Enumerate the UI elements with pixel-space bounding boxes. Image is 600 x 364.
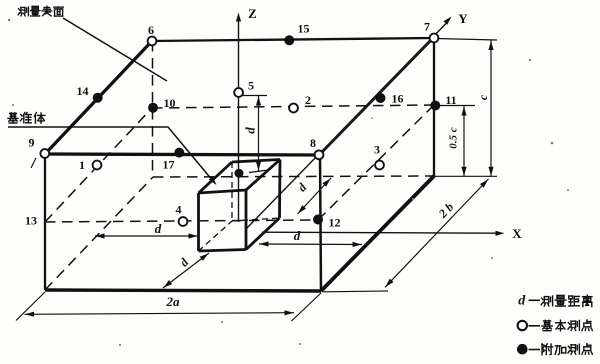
node point 2 (basic, open circle): [289, 104, 298, 113]
svg-text:1: 1: [79, 158, 85, 172]
wire edge 9'-8' (bottom-front): [45, 290, 321, 291]
dim d-vert top arrowhead: [256, 97, 261, 106]
speck: [60, 8, 62, 10]
legend d dash: [529, 299, 541, 301]
dim c / 0.5c bottom extension: [434, 175, 497, 177]
wire edge 7-7' (back-right vertical): [433, 38, 435, 176]
wire edge 9'-6' hidden (dashed bottom-left slant): [45, 177, 153, 290]
wire mid-plane right slant (through 3): [318, 105, 434, 220]
svg-text:d: d: [155, 221, 162, 236]
legend text 测量距离 (measurement distance): [541, 296, 552, 306]
wire edge 9-8 (top-front): [45, 154, 320, 155]
dim d-vert tick below point 5: [242, 95, 267, 97]
node point 8 (basic, open circle): [315, 150, 324, 159]
dim 0.5c line: [463, 106, 465, 176]
wire edge 9-6 (top-left slant): [45, 41, 152, 154]
box edge A-B (top-left): [199, 162, 233, 193]
wire mid-plane front line (through 13,4,12): [45, 220, 318, 222]
speck: [567, 189, 569, 191]
box edge A'-D' (front-bottom): [199, 250, 247, 252]
tick below label 9: [31, 158, 36, 168]
svg-text:15: 15: [298, 22, 310, 36]
svg-text:8: 8: [310, 136, 316, 150]
speck: [551, 142, 554, 145]
speck: [491, 257, 493, 259]
leader from label 基准体: [8, 127, 213, 181]
wire edge 8'-7' (bottom-right slant): [321, 176, 434, 291]
svg-text:d: d: [243, 127, 258, 134]
dim 2b line: [385, 179, 489, 287]
svg-text:c: c: [476, 94, 490, 100]
speck: [12, 104, 14, 106]
legend circle dash: [529, 325, 541, 327]
dim d-slant-right upper arrowhead: [322, 179, 330, 187]
legend dot dash: [529, 349, 541, 351]
wire edge 8-8' (front-right vertical): [320, 155, 321, 291]
box edge B-C (top-back): [232, 160, 280, 163]
node point 17 (additional, filled circle): [174, 148, 184, 158]
node point 6 (basic, open circle): [148, 37, 157, 46]
dim c bottom arrowhead: [488, 167, 493, 176]
svg-text:17: 17: [163, 158, 175, 172]
dim d-slant-left line: [163, 253, 209, 288]
node point 16 (additional, filled circle): [376, 93, 386, 103]
node point 4 (basic, open circle): [179, 217, 188, 226]
legend text 附加测点 (additional points): [542, 344, 553, 355]
box edge D-D' (front-right vertical): [245, 190, 248, 250]
svg-text:Z: Z: [248, 6, 257, 21]
label 基准体 (reference body): [8, 113, 18, 123]
dim 2a left extension slash: [16, 292, 45, 321]
node point 12 (additional, filled circle): [313, 215, 323, 225]
dim d-left right arrowhead: [189, 233, 198, 238]
svg-text:d: d: [518, 294, 526, 309]
dim d-slant-left lower arrowhead: [164, 280, 173, 288]
dim 2a left arrowhead: [25, 312, 34, 317]
node point 5 (basic, open circle): [234, 88, 243, 97]
svg-text:2a: 2a: [166, 294, 181, 309]
axis Z line: [238, 20, 240, 222]
axis Y arrowhead: [443, 17, 451, 25]
axis X arrowhead: [496, 231, 505, 236]
box hidden edge B'-C' (dashed): [232, 218, 280, 221]
speck: [119, 344, 121, 346]
svg-text:9: 9: [29, 136, 35, 150]
wire edge 6-7 (top-back): [152, 38, 434, 41]
wire edge 6'-7' hidden (dashed bottom-back): [153, 176, 434, 177]
dim d-vert tick at box top: [249, 170, 268, 173]
wire mid-plane back line (through 10,2,11): [152, 105, 434, 108]
svg-text:6: 6: [148, 23, 154, 37]
dim 0.5c bottom arrowhead: [461, 167, 466, 176]
axis Y line (origin to tip, inner of double line): [247, 23, 448, 229]
box edge C-D (top-right): [246, 160, 280, 191]
svg-text:4: 4: [176, 203, 182, 217]
svg-text:0.5 c: 0.5 c: [448, 127, 460, 149]
dim c line: [490, 41, 492, 177]
node point 10 (additional, filled circle): [148, 103, 158, 113]
box edge D-A (top-front): [199, 190, 247, 193]
dim d-vert line: [258, 96, 260, 171]
node point 11 (additional, filled circle): [430, 101, 440, 111]
box hidden edge B-B' (dashed): [231, 162, 233, 221]
wire edge 8-7 (top-right, outer of double line): [320, 38, 434, 155]
label 测量表面 (measurement surface): [18, 7, 28, 16]
dim d-slant-right line: [298, 178, 332, 214]
dim 2b lower extension: [323, 290, 388, 293]
wire edge 9-9' (front-left vertical): [44, 154, 46, 290]
svg-text:12: 12: [329, 216, 341, 230]
dim 0.5c top extension: [437, 105, 475, 107]
svg-text:Y: Y: [458, 11, 468, 26]
box top-centre dot (origin point): [235, 169, 244, 178]
svg-text:d: d: [294, 228, 301, 243]
node point 14 (additional, filled circle): [93, 93, 103, 103]
dim 2a line: [25, 313, 295, 315]
wire edge 6-6' hidden (dashed vertical): [152, 41, 154, 177]
dim d-slant-right lower arrowhead: [298, 205, 306, 213]
legend open circle symbol: [518, 321, 527, 330]
dim 2b lower arrowhead: [385, 279, 393, 287]
speck: [8, 19, 10, 21]
box edge A-A' (front-left vertical): [197, 193, 200, 251]
dim c top arrowhead: [488, 41, 493, 50]
speck: [529, 59, 531, 61]
dim c top extension: [436, 39, 497, 41]
dim d-left line: [95, 235, 198, 237]
leader from label 测量表面: [63, 18, 167, 81]
box edge D'-C' (bottom-right): [246, 218, 280, 250]
dim d-right right arrowhead: [353, 242, 362, 247]
axis Z arrowhead: [236, 13, 241, 22]
svg-text:7: 7: [424, 20, 430, 34]
node point 9 (basic, open circle): [40, 149, 49, 158]
svg-text:X: X: [512, 226, 522, 241]
dim 0.5c top arrowhead: [461, 107, 466, 116]
speck: [299, 343, 301, 345]
svg-text:13: 13: [25, 214, 37, 228]
node point 3 (basic, open circle): [375, 161, 384, 170]
node point 7 (basic, open circle): [430, 34, 439, 43]
dim d-slant-left upper arrowhead: [200, 253, 209, 260]
speck: [221, 321, 223, 323]
node point 15 (additional, filled circle): [284, 35, 294, 45]
svg-text:11: 11: [445, 93, 456, 107]
legend text 基本测点 (basic points): [542, 320, 552, 330]
legend filled circle symbol: [517, 344, 528, 355]
box hidden edge A'-B' (dashed): [199, 221, 233, 251]
dim 2b upper arrowhead: [480, 179, 488, 187]
node point 1 (basic, open circle): [93, 161, 102, 170]
dim d-left left arrowhead: [96, 233, 105, 238]
dim d-right line: [259, 243, 362, 246]
svg-text:10: 10: [164, 96, 176, 110]
axis X line: [262, 232, 498, 233]
dim d-right left arrowhead: [260, 241, 269, 246]
svg-text:2: 2: [305, 93, 311, 107]
box edge C-C' (back-right vertical): [278, 160, 281, 219]
svg-text:5: 5: [248, 79, 254, 93]
dim d-vert bottom arrowhead: [256, 162, 261, 171]
svg-text:16: 16: [392, 92, 404, 106]
svg-text:3: 3: [374, 143, 380, 157]
wire mid-plane left slant (through 1): [45, 108, 152, 222]
dim 2a right arrowhead: [285, 310, 294, 315]
dim 2a right extension slash: [292, 293, 322, 321]
speck: [412, 198, 414, 200]
leader arrowhead onto box: [209, 176, 217, 185]
svg-text:14: 14: [77, 84, 89, 98]
speck: [371, 117, 373, 119]
